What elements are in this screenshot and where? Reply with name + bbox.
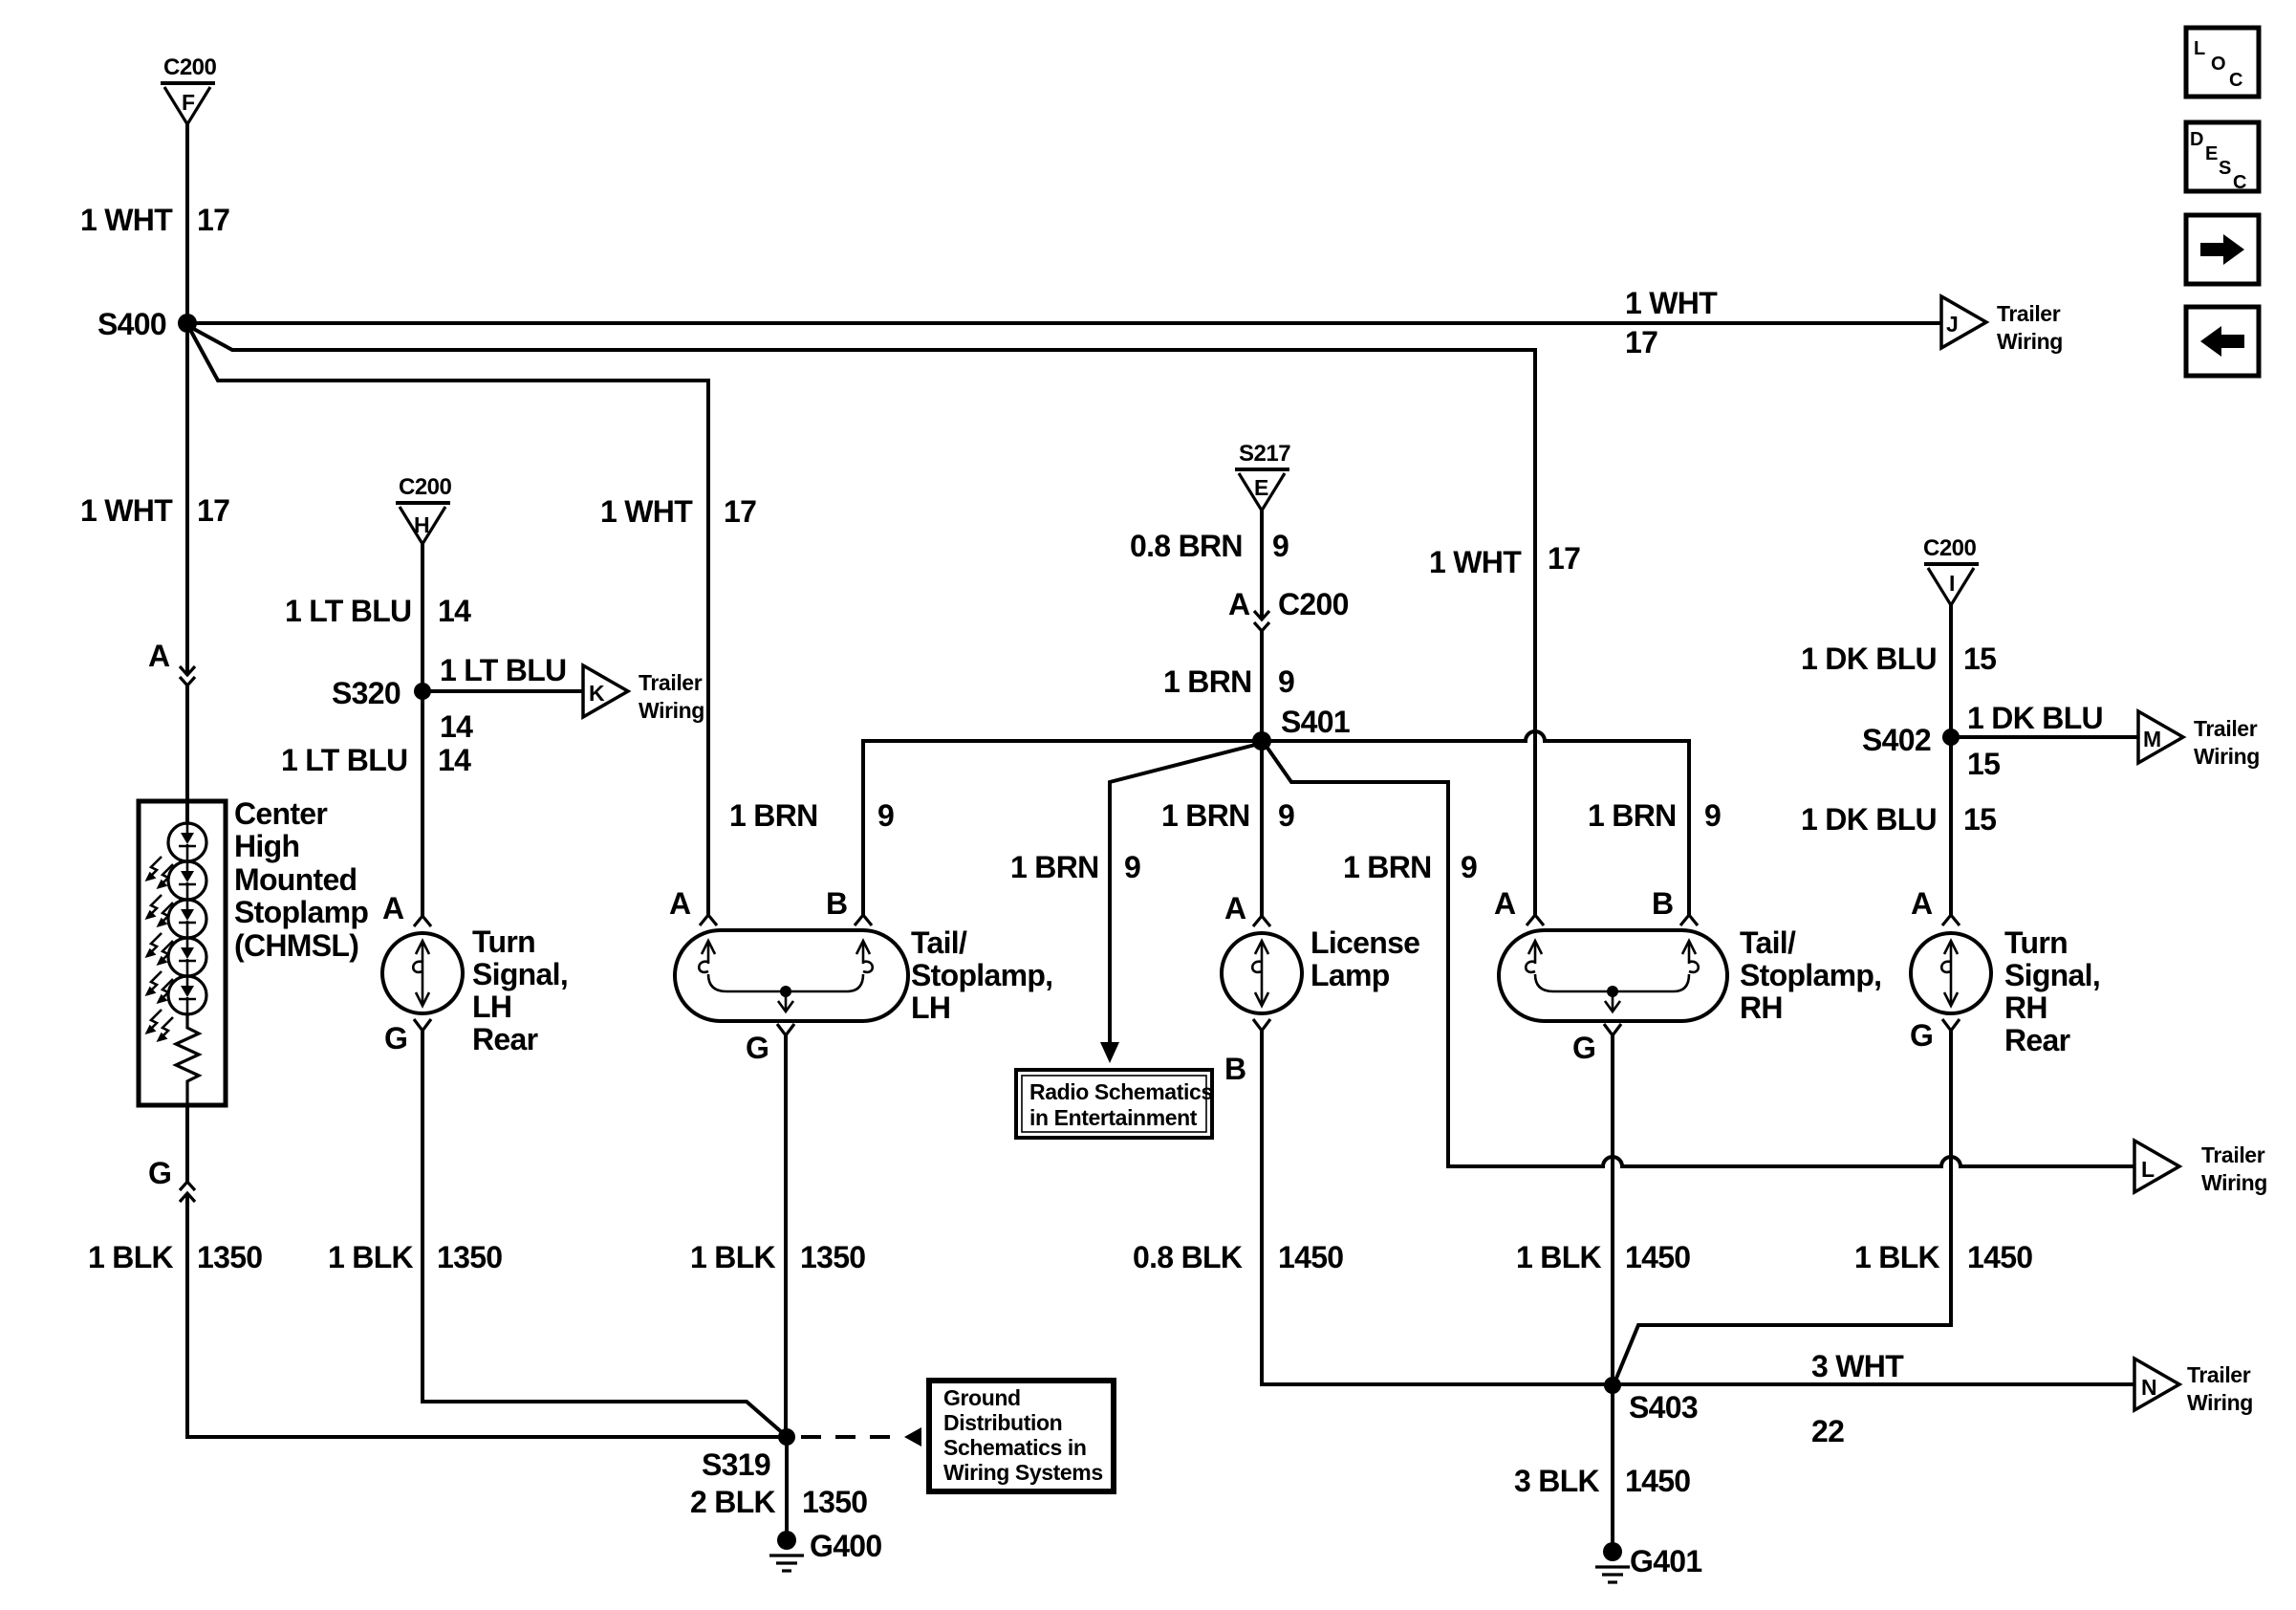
svg-text:D: D: [2190, 129, 2203, 150]
pin A of Tail/Stoplamp LH: [669, 886, 717, 925]
trailer wiring M (triangle): [2138, 711, 2260, 769]
svg-text:Signal,: Signal,: [2004, 958, 2100, 992]
svg-text:C200: C200: [399, 474, 452, 500]
wire S401 to Tail/Stoplamp LH B (1 BRN 9): [863, 741, 1262, 916]
svg-text:9: 9: [1704, 798, 1721, 833]
wire into CHMSL: [185, 685, 189, 823]
wire S400 down to CHMSL: [185, 333, 189, 674]
svg-text:C200: C200: [163, 54, 217, 80]
trailer wiring L (triangle): [2134, 1141, 2267, 1195]
svg-text:Ground: Ground: [943, 1385, 1021, 1410]
svg-text:Trailer: Trailer: [639, 670, 703, 695]
LED diodes inside CHMSL: [179, 823, 196, 1014]
svg-text:Turn: Turn: [472, 925, 535, 959]
svg-text:RH: RH: [2004, 990, 2047, 1025]
label 1 WHT 17 (J line): [1625, 286, 1718, 359]
svg-text:1 BRN: 1 BRN: [1343, 850, 1432, 884]
svg-text:L: L: [2141, 1157, 2155, 1182]
wire S402 to M (1 DK BLU 15): [1951, 735, 2138, 739]
svg-text:M: M: [2143, 727, 2161, 751]
svg-text:Trailer: Trailer: [2201, 1142, 2265, 1167]
svg-text:Center: Center: [234, 796, 327, 831]
svg-text:G: G: [384, 1021, 407, 1055]
wire Turn Signal RH to S403 (1 BLK 1450): [1615, 1031, 1951, 1381]
svg-text:1 LT BLU: 1 LT BLU: [440, 653, 566, 687]
svg-text:Stoplamp,: Stoplamp,: [911, 958, 1052, 992]
legend box LOC: [2186, 28, 2259, 97]
label Tail/ Stoplamp, LH: [911, 925, 1052, 1025]
svg-text:A: A: [669, 886, 691, 921]
arrowhead to radio note: [1100, 1042, 1119, 1063]
resistor inside CHMSL: [176, 1014, 199, 1105]
pin B of Tail/Stoplamp RH: [1652, 886, 1698, 925]
pin G of Tail/Stoplamp LH: [746, 1024, 794, 1065]
svg-text:Wiring: Wiring: [2201, 1170, 2267, 1195]
label 3 WHT 22: [1811, 1349, 1904, 1448]
svg-text:14: 14: [440, 709, 473, 744]
svg-text:1 DK BLU: 1 DK BLU: [1801, 642, 1937, 676]
svg-text:I: I: [1949, 571, 1955, 596]
svg-text:in Entertainment: in Entertainment: [1029, 1105, 1198, 1130]
connector pin A at C200 (chevrons): [1228, 587, 1349, 631]
svg-text:C: C: [2229, 70, 2242, 91]
svg-text:N: N: [2141, 1375, 2156, 1400]
svg-text:K: K: [589, 681, 605, 706]
wire S400 to RH stoplamp A (1 WHT 17, branch 2): [190, 327, 1535, 916]
svg-text:1 BLK: 1 BLK: [1516, 1240, 1602, 1274]
svg-text:Distribution: Distribution: [943, 1410, 1062, 1435]
svg-text:Tail/: Tail/: [1740, 925, 1796, 960]
splice S402: [1862, 723, 1960, 757]
wire Tail/Stoplamp LH to S319 (1 BLK 1350): [784, 1035, 788, 1432]
label 0.8 BRN 9: [1130, 529, 1289, 563]
wire H to Turn Signal LH (1 LT BLU 14): [421, 544, 424, 916]
svg-text:S401: S401: [1281, 705, 1350, 739]
svg-text:E: E: [1254, 475, 1268, 500]
label 1 WHT 17 (top): [80, 203, 229, 237]
svg-text:Rear: Rear: [472, 1022, 538, 1056]
svg-text:14: 14: [438, 594, 471, 628]
svg-text:1350: 1350: [802, 1485, 867, 1519]
label 1 DK BLU 15 (lower): [1801, 802, 1996, 837]
splice S320: [332, 676, 431, 710]
svg-text:LH: LH: [472, 990, 511, 1024]
svg-text:9: 9: [877, 798, 894, 833]
connector S217 E (triangle): [1235, 441, 1290, 511]
svg-text:E: E: [2205, 143, 2218, 164]
svg-text:17: 17: [1548, 541, 1580, 576]
svg-text:G: G: [1910, 1018, 1933, 1053]
svg-text:H: H: [414, 512, 429, 537]
svg-text:G: G: [746, 1031, 769, 1065]
svg-text:1 BLK: 1 BLK: [1854, 1240, 1940, 1274]
ground G401: [1595, 1542, 1701, 1582]
svg-text:Schematics in: Schematics in: [943, 1435, 1086, 1460]
svg-text:1 BRN: 1 BRN: [1010, 850, 1099, 884]
label 1 LT BLU 14 (upper): [285, 594, 471, 628]
svg-text:17: 17: [197, 493, 229, 528]
svg-text:1 BLK: 1 BLK: [690, 1240, 776, 1274]
svg-text:Lamp: Lamp: [1310, 958, 1390, 992]
pin G of CHMSL (connector chevrons): [148, 1156, 195, 1202]
svg-text:S320: S320: [332, 676, 401, 710]
svg-text:3 BLK: 3 BLK: [1514, 1464, 1600, 1498]
svg-text:1 WHT: 1 WHT: [80, 493, 173, 528]
splice S403: [1604, 1377, 1698, 1425]
lamp Tail/Stoplamp RH: [1499, 930, 1727, 1021]
svg-text:(CHMSL): (CHMSL): [234, 928, 358, 963]
lamp Turn Signal RH Rear: [1911, 933, 1991, 1013]
svg-text:O: O: [2211, 54, 2226, 75]
svg-text:B: B: [1652, 886, 1673, 921]
label Turn Signal LH Rear: [472, 925, 568, 1056]
dashed reference arrow to Ground Distribution: [801, 1427, 921, 1447]
label 1 WHT 17 (branch 3): [600, 494, 756, 529]
svg-text:1 WHT: 1 WHT: [600, 494, 693, 529]
svg-text:Radio Schematics: Radio Schematics: [1029, 1079, 1213, 1104]
label 1 BRN 9 (to RH B): [1588, 798, 1721, 833]
splice S401: [1252, 705, 1350, 751]
svg-text:17: 17: [1625, 325, 1657, 359]
svg-text:1450: 1450: [1625, 1240, 1690, 1274]
svg-text:9: 9: [1278, 664, 1294, 699]
wire S403 to N trailer wiring (3 WHT 22): [1613, 1382, 2134, 1386]
svg-text:B: B: [826, 886, 847, 921]
svg-text:A: A: [1911, 886, 1933, 921]
wire F to S400 (1 WHT 17): [185, 124, 189, 315]
svg-text:15: 15: [1967, 747, 2000, 781]
legend box right arrow: [2186, 215, 2259, 284]
label Turn Signal RH Rear: [2004, 925, 2100, 1057]
label 1 BLK 1450 (tail RH ground): [1516, 1240, 1690, 1274]
svg-text:G400: G400: [810, 1529, 881, 1563]
svg-text:S319: S319: [702, 1447, 770, 1482]
legend box left arrow: [2186, 307, 2259, 376]
svg-text:G: G: [1572, 1031, 1595, 1065]
svg-text:S403: S403: [1629, 1390, 1698, 1425]
svg-text:9: 9: [1272, 529, 1289, 563]
svg-text:J: J: [1946, 312, 1958, 337]
svg-text:C200: C200: [1923, 535, 1977, 561]
svg-text:1450: 1450: [1278, 1240, 1343, 1274]
trailer wiring N (triangle): [2134, 1359, 2253, 1415]
svg-text:1350: 1350: [800, 1240, 865, 1274]
svg-text:A: A: [382, 891, 404, 925]
svg-text:0.8 BRN: 0.8 BRN: [1130, 529, 1243, 563]
connector C200 F (triangle): [161, 54, 217, 124]
label 1 WHT 17 (below S400): [80, 493, 229, 528]
svg-text:S400: S400: [97, 307, 166, 341]
svg-text:Wiring Systems: Wiring Systems: [943, 1460, 1103, 1485]
svg-text:1 BRN: 1 BRN: [1588, 798, 1677, 833]
svg-text:B: B: [1224, 1052, 1245, 1086]
svg-text:Rear: Rear: [2004, 1023, 2070, 1057]
wire License Lamp B to S403 (0.8 BLK 1450): [1262, 1031, 1606, 1384]
svg-text:1450: 1450: [1625, 1464, 1690, 1498]
svg-text:Wiring: Wiring: [2194, 744, 2260, 769]
svg-text:15: 15: [1963, 802, 1996, 837]
svg-text:9: 9: [1124, 850, 1140, 884]
svg-text:G: G: [148, 1156, 171, 1190]
svg-text:2 BLK: 2 BLK: [690, 1485, 776, 1519]
svg-text:17: 17: [724, 494, 756, 529]
pin B of License Lamp: [1224, 1019, 1270, 1086]
label 1 LT BLU 14 (lower): [281, 743, 471, 777]
svg-text:Trailer: Trailer: [2194, 716, 2258, 741]
svg-text:S217: S217: [1239, 441, 1290, 467]
LED emission arrows: [147, 857, 173, 1040]
wire I to Turn Signal RH (1 DK BLU 15): [1949, 605, 1953, 916]
svg-text:Wiring: Wiring: [1997, 329, 2063, 354]
svg-text:3 WHT: 3 WHT: [1811, 1349, 1904, 1383]
wire S401 to Tail/Stoplamp RH B (1 BRN 9, hops over WHT wire): [1262, 731, 1689, 916]
svg-text:LH: LH: [911, 990, 950, 1025]
wire CHMSL to S319 (1 BLK 1350): [187, 1105, 781, 1437]
wire Turn Signal LH to S319 (1 BLK 1350): [422, 1031, 784, 1434]
svg-text:C200: C200: [1278, 587, 1349, 621]
svg-text:G401: G401: [1630, 1544, 1701, 1578]
label Tail/ Stoplamp, RH: [1740, 925, 1881, 1025]
svg-text:1 WHT: 1 WHT: [1429, 545, 1522, 579]
label 1 BLK 1350 (tail LH ground): [690, 1240, 865, 1274]
note box Radio Schematics in Entertainment: [1016, 1070, 1213, 1138]
svg-text:S402: S402: [1862, 723, 1931, 757]
svg-text:License: License: [1310, 925, 1419, 960]
svg-text:Stoplamp: Stoplamp: [234, 895, 368, 929]
svg-text:Turn: Turn: [2004, 925, 2068, 960]
svg-text:Trailer: Trailer: [2187, 1362, 2251, 1387]
pin A of License Lamp: [1224, 891, 1270, 926]
svg-text:1 BRN: 1 BRN: [729, 798, 818, 833]
trailer wiring K (triangle): [583, 665, 704, 723]
svg-text:1 WHT: 1 WHT: [80, 203, 173, 237]
lamp Turn Signal LH Rear: [382, 933, 463, 1013]
pin A of Turn Signal RH: [1911, 886, 1960, 925]
pin G of Tail/Stoplamp RH: [1572, 1024, 1621, 1065]
label 3 BLK 1450: [1514, 1464, 1690, 1498]
svg-text:1350: 1350: [197, 1240, 262, 1274]
lamp CHMSL (Center High Mounted Stoplamp): [139, 801, 226, 1105]
label 0.8 BLK 1450: [1133, 1240, 1343, 1274]
label 1 BLK 1450 (turn RH ground): [1854, 1240, 2032, 1274]
label 2 BLK 1350: [690, 1485, 867, 1519]
svg-text:Tail/: Tail/: [911, 925, 967, 960]
lamp Tail/Stoplamp LH: [675, 930, 908, 1021]
lamp License Lamp: [1222, 933, 1302, 1013]
pin B of Tail/Stoplamp LH: [826, 886, 872, 925]
label License Lamp: [1310, 925, 1419, 992]
svg-text:1 BRN: 1 BRN: [1163, 664, 1252, 699]
svg-text:17: 17: [197, 203, 229, 237]
svg-text:1 LT BLU: 1 LT BLU: [285, 594, 411, 628]
label Center High Mounted Stoplamp (CHMSL): [234, 796, 368, 963]
label 1 BRN 9 (L branch): [1343, 850, 1477, 884]
svg-text:9: 9: [1461, 850, 1477, 884]
svg-text:1 WHT: 1 WHT: [1625, 286, 1718, 320]
wire S401 to Radio Schematics (1 BRN 9): [1110, 744, 1259, 1044]
svg-text:C: C: [2233, 172, 2246, 193]
label 1 WHT 17 (branch 2): [1429, 541, 1580, 579]
pin G of Turn Signal RH: [1910, 1018, 1960, 1053]
splice S400: [97, 307, 197, 341]
label 1 BLK 1350 (CHMSL ground): [88, 1240, 262, 1274]
svg-text:Wiring: Wiring: [2187, 1390, 2253, 1415]
svg-text:S: S: [2219, 158, 2231, 179]
svg-text:F: F: [182, 90, 195, 115]
svg-text:Stoplamp,: Stoplamp,: [1740, 958, 1881, 992]
splice S319: [702, 1428, 795, 1482]
svg-text:L: L: [2194, 38, 2205, 59]
svg-text:1350: 1350: [437, 1240, 502, 1274]
trailer wiring J (triangle): [1941, 296, 2063, 354]
svg-text:15: 15: [1963, 642, 1996, 676]
svg-text:Signal,: Signal,: [472, 957, 568, 991]
connector C200 H (triangle): [396, 474, 452, 544]
pin G of Turn Signal LH: [384, 1019, 431, 1055]
wire S401 to L trailer wiring (1 BRN 9, with hops): [1265, 744, 2134, 1166]
svg-text:1 BRN: 1 BRN: [1161, 798, 1250, 833]
svg-text:A: A: [1224, 891, 1246, 925]
label 1 BRN 9 (license): [1161, 798, 1294, 833]
label 1 BLK 1350 (turn LH ground): [328, 1240, 502, 1274]
svg-text:22: 22: [1811, 1414, 1844, 1448]
pin A of Tail/Stoplamp RH: [1494, 886, 1544, 925]
connector C200 I (triangle): [1923, 535, 1979, 605]
svg-text:Mounted: Mounted: [234, 862, 357, 897]
svg-text:Wiring: Wiring: [639, 698, 704, 723]
label 1 BRN 9 (above S401): [1163, 664, 1294, 699]
svg-text:RH: RH: [1740, 990, 1783, 1025]
label 1 DK BLU 15 (at S402): [1967, 701, 2103, 781]
legend box DESC: [2186, 122, 2259, 193]
label 1 DK BLU 15 (upper): [1801, 642, 1996, 676]
wire Tail/Stoplamp RH to S403 (1 BLK 1450): [1611, 1035, 1614, 1384]
svg-text:High: High: [234, 829, 299, 863]
wire S400 to J (1 WHT 17): [187, 321, 1941, 325]
wire S319 to G400: [785, 1437, 789, 1534]
svg-text:Trailer: Trailer: [1997, 301, 2061, 326]
svg-text:A: A: [1494, 886, 1516, 921]
wire S403 to G401 (3 BLK 1450): [1611, 1385, 1614, 1545]
svg-text:1 LT BLU: 1 LT BLU: [281, 743, 407, 777]
svg-text:1450: 1450: [1967, 1240, 2032, 1274]
pin A of Turn Signal LH: [382, 891, 431, 926]
svg-text:A: A: [148, 639, 170, 673]
svg-text:1 BLK: 1 BLK: [88, 1240, 174, 1274]
wire S400 to LH stoplamp A (1 WHT 17, branch 3): [189, 328, 708, 916]
pin A of CHMSL (connector chevrons): [148, 639, 195, 685]
label 1 BRN 9 (radio): [1010, 850, 1140, 884]
wire S320 to K (1 LT BLU 14): [422, 689, 583, 693]
svg-text:0.8 BLK: 0.8 BLK: [1133, 1240, 1243, 1274]
svg-text:1 BLK: 1 BLK: [328, 1240, 414, 1274]
wire S401 down to License Lamp A (1 BRN 9): [1260, 741, 1264, 916]
svg-text:14: 14: [438, 743, 471, 777]
svg-text:1 DK BLU: 1 DK BLU: [1801, 802, 1937, 837]
svg-text:A: A: [1228, 587, 1250, 621]
label 1 BRN 9 (to LH B): [729, 798, 894, 833]
ground G400: [769, 1529, 881, 1571]
note box Ground Distribution Schematics in Wiring Systems: [929, 1381, 1114, 1491]
svg-text:1 DK BLU: 1 DK BLU: [1967, 701, 2103, 735]
wire E to S401 (0.8 BRN 9): [1260, 511, 1264, 733]
svg-text:9: 9: [1278, 798, 1294, 833]
label 1 LT BLU 14 (at S320): [440, 653, 566, 744]
